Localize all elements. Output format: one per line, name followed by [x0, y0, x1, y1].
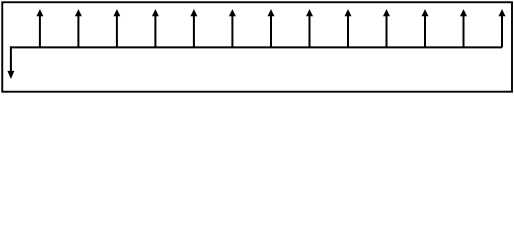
- arrow up 4: [152, 9, 159, 47]
- border frame: [2, 2, 512, 91]
- arrow up 10: [383, 9, 390, 47]
- arrow up 6: [229, 9, 236, 47]
- arrow up 9: [345, 9, 352, 47]
- wire: horizontal feed line: [10, 46, 502, 48]
- arrow up 2: [75, 9, 82, 47]
- arrow up 8: [306, 9, 313, 47]
- arrow up 5: [190, 9, 197, 47]
- arrow up 3: [113, 9, 120, 47]
- wire: left vertical drop: [10, 46, 12, 72]
- arrow up 13: [499, 9, 506, 47]
- arrow up 7: [268, 9, 275, 47]
- arrow up 1: [36, 9, 43, 47]
- arrow up 12: [460, 9, 467, 47]
- arrow down (left branch): [7, 71, 14, 79]
- arrow up 11: [422, 9, 429, 47]
